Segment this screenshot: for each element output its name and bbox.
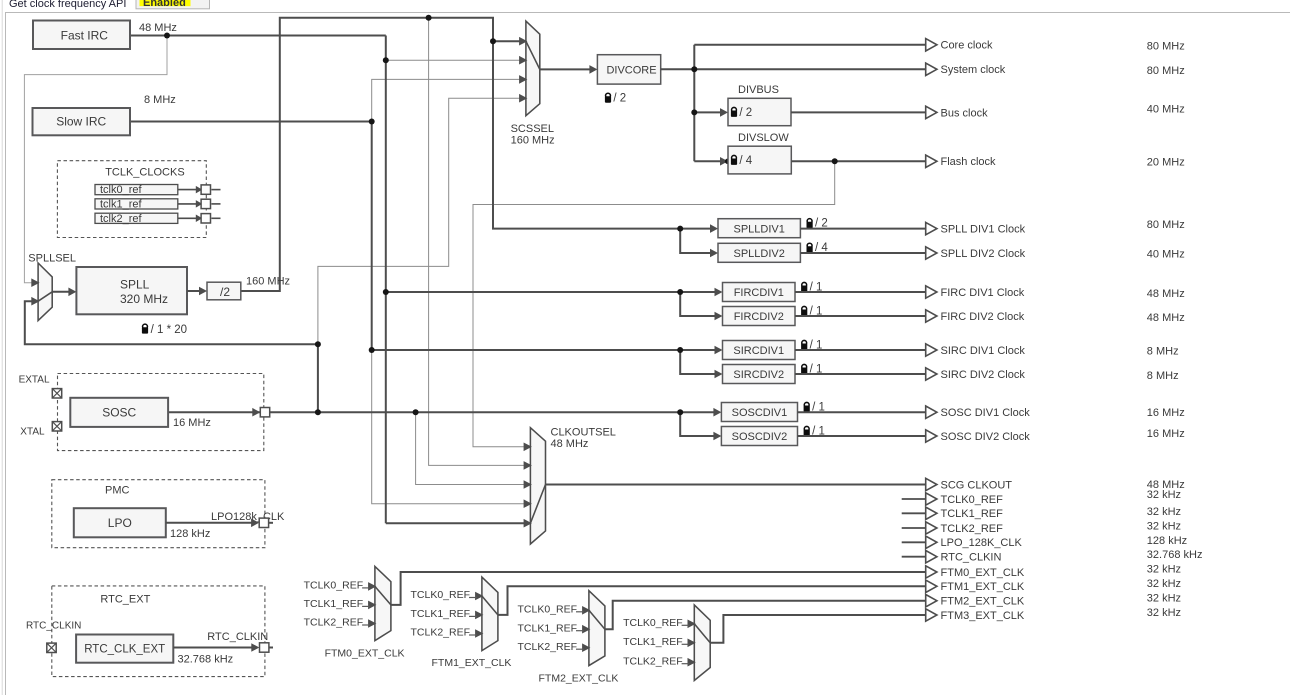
wire FTM2_EXT_CLK output xyxy=(605,601,926,630)
junction Flash clock tap xyxy=(832,158,838,164)
block FIRCDIV1 xyxy=(723,283,796,302)
wire tclk0_ref to port xyxy=(178,189,196,191)
svg-text:32 kHz: 32 kHz xyxy=(1147,521,1181,533)
wire TCLK1_REF stub into FTM1_EXT_CLK xyxy=(469,615,477,617)
output arrow SOSC DIV2 Clock xyxy=(926,430,937,442)
group RTC_EXT dashed box xyxy=(52,586,265,677)
svg-text:FTM2_EXT_CLK: FTM2_EXT_CLK xyxy=(539,672,619,684)
wire SIRC vertical spine xyxy=(371,122,373,351)
block divider /2 xyxy=(207,282,241,300)
svg-text:SIRC DIV2 Clock: SIRC DIV2 Clock xyxy=(941,369,1026,381)
label SOSCDIV2 divider lock / 1 xyxy=(804,425,825,437)
svg-text:FIRCDIV1: FIRCDIV1 xyxy=(734,287,784,299)
block RTC_CLK_EXT xyxy=(76,635,173,663)
svg-text:SPLLDIV1: SPLLDIV1 xyxy=(734,224,785,236)
block SOSCDIV2 xyxy=(721,427,797,446)
wire SOSC feedback to SPLLSEL input 2 xyxy=(25,301,318,412)
output arrow Core clock xyxy=(926,39,937,51)
wire SPLLSEL output to SPLL xyxy=(52,291,69,293)
svg-text:16 MHz: 16 MHz xyxy=(1147,407,1185,419)
label SPLLDIV2 divider lock / 4 xyxy=(807,242,829,254)
arrow into SPLLDIV1 xyxy=(710,224,718,233)
arrow into SIRCDIV1 xyxy=(715,346,723,355)
svg-text:SOSC: SOSC xyxy=(102,406,136,420)
wire SIRCDIV2 output xyxy=(795,373,926,375)
svg-text:8 MHz: 8 MHz xyxy=(1147,370,1179,382)
arrow into SPLLDIV2 xyxy=(710,249,718,258)
wire TCLK2_REF stub into FTM2_EXT_CLK xyxy=(576,648,584,650)
svg-text:TCLK0_REF: TCLK0_REF xyxy=(304,580,364,592)
svg-text:FTM1_EXT_CLK: FTM1_EXT_CLK xyxy=(432,657,512,669)
svg-text:32 kHz: 32 kHz xyxy=(1147,489,1181,501)
svg-text:TCLK2_REF: TCLK2_REF xyxy=(941,523,1004,535)
svg-text:Slow IRC: Slow IRC xyxy=(56,115,106,129)
svg-text:80 MHz: 80 MHz xyxy=(1147,219,1185,231)
svg-text:tclk2_ref: tclk2_ref xyxy=(100,213,143,225)
svg-text:/ 2: / 2 xyxy=(739,107,752,119)
svg-text:TCLK2_REF: TCLK2_REF xyxy=(304,617,364,629)
block SPLL 320 MHz xyxy=(76,267,187,314)
wire RTC_CLK_EXT output xyxy=(173,647,252,649)
junction SIRCDIV feed xyxy=(677,347,683,353)
wire stub for TCLK2_REF xyxy=(902,527,926,529)
wire tclk1_ref to port xyxy=(178,203,196,205)
svg-text:48 MHz: 48 MHz xyxy=(551,438,589,450)
mux FTM0_EXT_CLK selector xyxy=(368,566,391,640)
svg-text:/ 2: / 2 xyxy=(613,93,626,105)
group PMC dashed box xyxy=(52,480,265,548)
svg-text:TCLK1_REF: TCLK1_REF xyxy=(623,636,683,648)
wire SPLLDIV2 output xyxy=(800,252,925,254)
wire SOSCDIV2 output xyxy=(798,435,926,437)
svg-text:16 MHz: 16 MHz xyxy=(1147,428,1185,440)
svg-text:Fast IRC: Fast IRC xyxy=(61,28,109,42)
svg-text:FIRC DIV2 Clock: FIRC DIV2 Clock xyxy=(941,311,1025,323)
wire stub for RTC_CLKIN xyxy=(902,556,926,558)
block tclk1_ref xyxy=(95,199,178,211)
svg-text:FTM3_EXT_CLK: FTM3_EXT_CLK xyxy=(941,610,1025,622)
panel left border xyxy=(1,0,3,695)
junction Fast IRC output xyxy=(164,33,170,39)
wire stub for TCLK1_REF xyxy=(902,512,926,514)
wire SIRCDIV1 output xyxy=(795,349,926,351)
block Slow IRC xyxy=(33,108,131,135)
junction FIRCDIV spine xyxy=(383,289,389,295)
block SIRCDIV1 xyxy=(723,341,796,360)
wire SCSSEL output to DIVCORE xyxy=(540,68,591,70)
block SOSCDIV1 xyxy=(721,403,797,422)
svg-text:160 MHz: 160 MHz xyxy=(246,276,290,288)
wire TCLK2_REF stub into FTM0_EXT_CLK xyxy=(362,624,370,626)
svg-text:20 MHz: 20 MHz xyxy=(1147,156,1185,168)
junction SPLL top line xyxy=(426,15,432,21)
wire LPO output xyxy=(166,522,252,524)
wire SPLL branch to SPLLDIV2 xyxy=(680,229,712,253)
svg-text:80 MHz: 80 MHz xyxy=(1147,65,1185,77)
junction SPLL/SCSSEL input 1 xyxy=(490,38,496,44)
svg-text:128 kHz: 128 kHz xyxy=(170,528,210,540)
junction FIRCDIV feed xyxy=(677,289,683,295)
wire FTM0_EXT_CLK output xyxy=(391,572,926,605)
port RTC_CLKIN input xyxy=(47,643,56,652)
wire SIRC branch to SIRCDIV1 xyxy=(372,349,717,351)
output arrow SIRC DIV1 Clock xyxy=(926,344,937,356)
block SOSC xyxy=(70,398,168,427)
wire to DIVBUS xyxy=(694,111,721,113)
svg-text:RTC_EXT: RTC_EXT xyxy=(100,594,150,606)
svg-text:TCLK1_REF: TCLK1_REF xyxy=(941,508,1004,520)
wire System clock line xyxy=(694,68,925,70)
junction SOSC riser bottom xyxy=(315,409,321,415)
block FIRCDIV2 xyxy=(723,307,796,326)
wire FIRC to CLKOUTSEL input 5 xyxy=(386,522,525,524)
label FIRCDIV2 divider lock / 1 xyxy=(801,305,822,317)
svg-text:TCLK2_REF: TCLK2_REF xyxy=(518,641,578,653)
output arrow Flash clock xyxy=(926,155,937,167)
output arrow LPO_128K_CLK xyxy=(926,536,937,548)
block tclk0_ref xyxy=(95,184,178,196)
svg-text:32 kHz: 32 kHz xyxy=(1147,564,1181,576)
mux SCSSEL xyxy=(519,21,540,116)
svg-text:SCG CLKOUT: SCG CLKOUT xyxy=(941,479,1013,491)
svg-text:TCLK0_REF: TCLK0_REF xyxy=(941,494,1004,506)
label DIVCORE divider lock / 2 xyxy=(605,93,626,105)
output arrow TCLK2_REF xyxy=(926,522,937,534)
wire stub for TCLK0_REF xyxy=(902,498,926,500)
svg-text:DIVBUS: DIVBUS xyxy=(738,84,779,96)
wire TCLK0_REF stub into FTM2_EXT_CLK xyxy=(576,611,584,613)
label DIVBUS divider lock / 2 xyxy=(731,107,752,119)
svg-text:Core clock: Core clock xyxy=(941,40,993,52)
svg-text:SIRC DIV1 Clock: SIRC DIV1 Clock xyxy=(941,345,1026,357)
svg-text:FIRC DIV1 Clock: FIRC DIV1 Clock xyxy=(941,287,1025,299)
wire TCLK1_REF stub into FTM2_EXT_CLK xyxy=(576,630,584,632)
block DIVSLOW xyxy=(728,146,791,174)
wire SPLLDIV1 output xyxy=(800,228,925,230)
port tclk2_ref xyxy=(201,214,210,223)
group SOSC dashed box xyxy=(58,374,264,451)
label SPLLDIV1 divider lock / 2 xyxy=(807,218,828,230)
block SIRCDIV2 xyxy=(723,365,796,384)
svg-text:tclk0_ref: tclk0_ref xyxy=(100,184,143,196)
wire stub for LPO_128K_CLK xyxy=(902,541,926,543)
svg-text:32 kHz: 32 kHz xyxy=(1147,593,1181,605)
wire SPLL drop to SPLLDIV1 xyxy=(493,41,712,228)
svg-text:TCLK2_REF: TCLK2_REF xyxy=(623,655,683,667)
output arrow FTM3_EXT_CLK xyxy=(926,609,937,621)
svg-text:TCLK0_REF: TCLK0_REF xyxy=(411,589,471,601)
group TCLK_CLOCKS dashed box xyxy=(57,161,206,238)
svg-text:/ 4: / 4 xyxy=(739,155,752,167)
port EXTAL xyxy=(52,389,61,398)
junction DIVCORE output xyxy=(691,66,697,72)
junction SPLLDIV feed xyxy=(677,226,683,232)
mux FTM1_EXT_CLK selector xyxy=(475,577,498,651)
wire DIVSLOW tap to CLKOUTSEL input 1 xyxy=(473,161,835,447)
wire SOSCDIV1 output xyxy=(798,411,926,413)
toolbar combo box xyxy=(136,0,210,9)
output arrow Bus clock xyxy=(926,106,937,118)
arrow into SIRCDIV2 xyxy=(715,370,723,379)
svg-text:FTM2_EXT_CLK: FTM2_EXT_CLK xyxy=(941,596,1025,608)
svg-text:TCLK_CLOCKS: TCLK_CLOCKS xyxy=(105,167,184,179)
svg-text:System clock: System clock xyxy=(941,64,1006,76)
port XTAL xyxy=(52,422,61,431)
output arrow SPLL DIV2 Clock xyxy=(926,247,937,259)
block SPLLDIV2 xyxy=(718,243,800,262)
svg-text:TCLK1_REF: TCLK1_REF xyxy=(411,608,471,620)
arrow into SOSC port xyxy=(252,408,260,417)
arrow into SOSCDIV1 xyxy=(713,408,721,417)
wire tclk2_ref to port xyxy=(178,217,196,219)
junction at DIVSLOW input xyxy=(725,159,731,165)
output arrow RTC_CLKIN xyxy=(926,551,937,563)
svg-text:32 kHz: 32 kHz xyxy=(1147,506,1181,518)
svg-text:CLKOUTSEL: CLKOUTSEL xyxy=(551,426,616,438)
svg-text:TCLK1_REF: TCLK1_REF xyxy=(304,598,364,610)
svg-text:EXTAL: EXTAL xyxy=(19,375,50,386)
label DIVSLOW divider lock / 4 xyxy=(731,155,753,167)
wire FTM1_EXT_CLK output xyxy=(498,586,926,615)
svg-text:SPLL DIV1 Clock: SPLL DIV1 Clock xyxy=(941,224,1026,236)
block SPLLDIV1 xyxy=(718,219,800,238)
wire SIRC branch to SIRCDIV2 xyxy=(680,350,716,374)
output arrow TCLK1_REF xyxy=(926,507,937,519)
svg-text:8 MHz: 8 MHz xyxy=(144,94,176,106)
svg-text:32.768 kHz: 32.768 kHz xyxy=(178,654,234,666)
svg-text:48 MHz: 48 MHz xyxy=(139,22,177,34)
svg-text:DIVSLOW: DIVSLOW xyxy=(738,132,789,144)
junction SOSC riser top xyxy=(315,341,321,347)
svg-text:160 MHz: 160 MHz xyxy=(511,135,555,147)
port tclk0_ref xyxy=(201,185,210,194)
svg-text:RTC_CLK_EXT: RTC_CLK_EXT xyxy=(84,644,165,656)
wire SIRC riser to SCSSEL input 3 xyxy=(372,79,521,121)
wire FIRC branch to FIRCDIV2 xyxy=(680,292,716,316)
junction SIRCDIV spine xyxy=(369,347,375,353)
output arrow TCLK0_REF xyxy=(926,493,937,505)
wire TCLK0_REF stub into FTM0_EXT_CLK xyxy=(362,587,370,589)
label SIRCDIV1 divider lock / 1 xyxy=(801,339,822,351)
output arrow SCG CLKOUT xyxy=(926,478,937,490)
svg-text:TCLK1_REF: TCLK1_REF xyxy=(518,622,578,634)
output arrow System clock xyxy=(926,63,937,75)
svg-text:32 kHz: 32 kHz xyxy=(1147,578,1181,590)
wire SIRC drop to CLKOUTSEL input 4 xyxy=(372,350,525,504)
output arrow FTM0_EXT_CLK xyxy=(926,566,937,578)
svg-text:Get clock frequency API: Get clock frequency API xyxy=(9,0,126,10)
output arrow FTM2_EXT_CLK xyxy=(926,595,937,607)
svg-text:Bus clock: Bus clock xyxy=(941,107,989,119)
svg-text:SPLL: SPLL xyxy=(120,278,150,292)
port LPO output xyxy=(259,518,268,527)
wire FIRCDIV1 output xyxy=(795,291,926,293)
mux FTM2_EXT_CLK selector xyxy=(582,591,605,666)
output arrow FIRC DIV2 Clock xyxy=(926,310,937,322)
svg-text:80 MHz: 80 MHz xyxy=(1147,41,1185,53)
port tclk1_ref xyxy=(201,199,210,208)
output arrow SOSC DIV1 Clock xyxy=(926,406,937,418)
svg-text:SPLLSEL: SPLLSEL xyxy=(28,252,76,264)
wire DIVCORE output xyxy=(661,68,695,70)
output arrow FIRC DIV1 Clock xyxy=(926,286,937,298)
junction DIVBUS feed xyxy=(691,109,697,115)
wire SCG CLKOUT line xyxy=(546,484,926,486)
svg-text:PMC: PMC xyxy=(105,485,130,497)
svg-text:FTM0_EXT_CLK: FTM0_EXT_CLK xyxy=(941,567,1025,579)
svg-text:TCLK2_REF: TCLK2_REF xyxy=(411,627,471,639)
svg-text:48 MHz: 48 MHz xyxy=(1147,288,1185,300)
svg-text:40 MHz: 40 MHz xyxy=(1147,248,1185,260)
svg-text:Flash clock: Flash clock xyxy=(941,156,997,168)
wire Slow IRC 8 MHz output xyxy=(130,121,372,123)
junction SOSC clkout drop xyxy=(413,409,419,415)
block LPO xyxy=(74,508,166,537)
mux SPLLSEL xyxy=(31,263,52,321)
label FIRCDIV1 divider lock / 1 xyxy=(801,281,822,293)
svg-text:tclk1_ref: tclk1_ref xyxy=(100,199,143,211)
block Fast IRC xyxy=(33,21,130,50)
svg-text:SOSC DIV1 Clock: SOSC DIV1 Clock xyxy=(941,407,1031,419)
wire TCLK1_REF stub into FTM3_EXT_CLK xyxy=(682,643,690,645)
wire to DIVSLOW xyxy=(694,160,721,162)
wire Fast IRC 48 MHz output to FIRC spine xyxy=(130,35,386,37)
svg-text:SPLL DIV2 Clock: SPLL DIV2 Clock xyxy=(941,248,1026,260)
wire Flash clock line xyxy=(791,160,925,162)
svg-text:XTAL: XTAL xyxy=(20,426,45,437)
output arrow SIRC DIV2 Clock xyxy=(926,368,937,380)
junction SOSCDIV feed xyxy=(677,409,683,415)
wire Bus clock line xyxy=(791,111,926,113)
arrow into FIRCDIV1 xyxy=(715,288,723,297)
wire TCLK0_REF stub into FTM3_EXT_CLK xyxy=(682,624,690,626)
svg-text:16 MHz: 16 MHz xyxy=(173,417,211,429)
wire SOSC 16 MHz output line xyxy=(168,411,715,413)
block DIVCORE xyxy=(597,55,660,84)
wire SOSC path to SCSSEL input 4 xyxy=(318,98,521,344)
svg-text:/2: /2 xyxy=(220,285,230,299)
wire SOSC drop to CLKOUTSEL input 3 xyxy=(416,412,525,484)
output arrow FTM1_EXT_CLK xyxy=(926,580,937,592)
svg-text:Enabled: Enabled xyxy=(143,0,186,9)
svg-text:SOSC DIV2 Clock: SOSC DIV2 Clock xyxy=(941,431,1031,443)
svg-text:8 MHz: 8 MHz xyxy=(1147,346,1179,358)
svg-text:FIRCDIV2: FIRCDIV2 xyxy=(734,311,784,323)
block tclk2_ref xyxy=(95,213,178,225)
svg-text:LPO128k_CLK: LPO128k_CLK xyxy=(211,511,285,523)
svg-text:SPLLDIV2: SPLLDIV2 xyxy=(734,248,785,260)
svg-text:SIRCDIV1: SIRCDIV1 xyxy=(733,345,784,357)
svg-text:RTC_CLKIN: RTC_CLKIN xyxy=(941,552,1002,564)
wire SPLL drop to CLKOUTSEL input 2 xyxy=(429,18,525,466)
svg-text:/ 1 * 20: / 1 * 20 xyxy=(151,324,187,336)
wire core/system distribution vertical xyxy=(693,45,695,162)
svg-text:SOSCDIV2: SOSCDIV2 xyxy=(732,431,788,443)
svg-text:TCLK0_REF: TCLK0_REF xyxy=(518,604,578,616)
wire SPLL to /2 divider xyxy=(187,290,200,292)
svg-text:FTM1_EXT_CLK: FTM1_EXT_CLK xyxy=(941,581,1025,593)
wire FIRC tap to SPLLSEL input 1 xyxy=(24,36,167,283)
output arrow SPLL DIV1 Clock xyxy=(926,222,937,234)
wire FIRC branch to FIRCDIV1 xyxy=(386,291,717,293)
block DIVBUS xyxy=(728,98,791,125)
label SIRCDIV2 divider lock / 1 xyxy=(801,363,822,375)
wire FIRC branch to SCSSEL input 2 xyxy=(386,59,521,61)
wire FIRCDIV2 output xyxy=(795,315,926,317)
svg-text:DIVCORE: DIVCORE xyxy=(606,65,656,77)
svg-text:32 kHz: 32 kHz xyxy=(1147,607,1181,619)
port SOSC output xyxy=(260,408,269,417)
arrow into FIRCDIV2 xyxy=(715,312,723,321)
mux FTM3_EXT_CLK selector xyxy=(688,605,711,681)
wire TCLK0_REF stub into FTM1_EXT_CLK xyxy=(469,597,477,599)
junction SIRC split xyxy=(369,119,375,125)
wire FTM3_EXT_CLK output xyxy=(710,615,926,643)
svg-text:TCLK0_REF: TCLK0_REF xyxy=(623,617,683,629)
wire Core clock line xyxy=(694,44,925,46)
wire SOSC branch to SOSCDIV2 xyxy=(680,412,715,436)
arrow into SOSCDIV2 xyxy=(713,432,721,441)
toolbar combo highlighted value Enabled xyxy=(140,0,191,6)
wire FIRC vertical spine xyxy=(385,36,387,524)
wire TCLK1_REF stub into FTM0_EXT_CLK xyxy=(362,605,370,607)
wire TCLK2_REF stub into FTM3_EXT_CLK xyxy=(682,663,690,665)
mux CLKOUTSEL xyxy=(524,428,546,544)
label SPLL multiplier lock / 1 * 20 xyxy=(142,324,187,336)
wire TCLK2_REF stub into FTM1_EXT_CLK xyxy=(469,634,477,636)
svg-text:SCSSEL: SCSSEL xyxy=(511,123,554,135)
svg-text:320 MHz: 320 MHz xyxy=(120,292,168,306)
svg-text:RTC_CLKIN: RTC_CLKIN xyxy=(26,621,81,632)
port RTC_CLKIN output xyxy=(260,643,269,652)
svg-text:32.768 kHz: 32.768 kHz xyxy=(1147,549,1203,561)
svg-text:SIRCDIV2: SIRCDIV2 xyxy=(733,369,784,381)
svg-text:40 MHz: 40 MHz xyxy=(1147,103,1185,115)
svg-text:128 kHz: 128 kHz xyxy=(1147,535,1187,547)
svg-text:SOSCDIV1: SOSCDIV1 xyxy=(732,407,788,419)
svg-text:LPO_128K_CLK: LPO_128K_CLK xyxy=(941,537,1023,549)
svg-text:48 MHz: 48 MHz xyxy=(1147,312,1185,324)
svg-text:FTM0_EXT_CLK: FTM0_EXT_CLK xyxy=(325,648,405,660)
label SOSCDIV1 divider lock / 1 xyxy=(804,401,825,413)
junction FIRC/SCSSEL input 2 xyxy=(383,57,389,63)
wire SPLL /2 output 160 MHz riser xyxy=(241,18,521,291)
svg-text:LPO: LPO xyxy=(108,516,132,530)
svg-text:RTC_CLKIN: RTC_CLKIN xyxy=(207,631,268,643)
